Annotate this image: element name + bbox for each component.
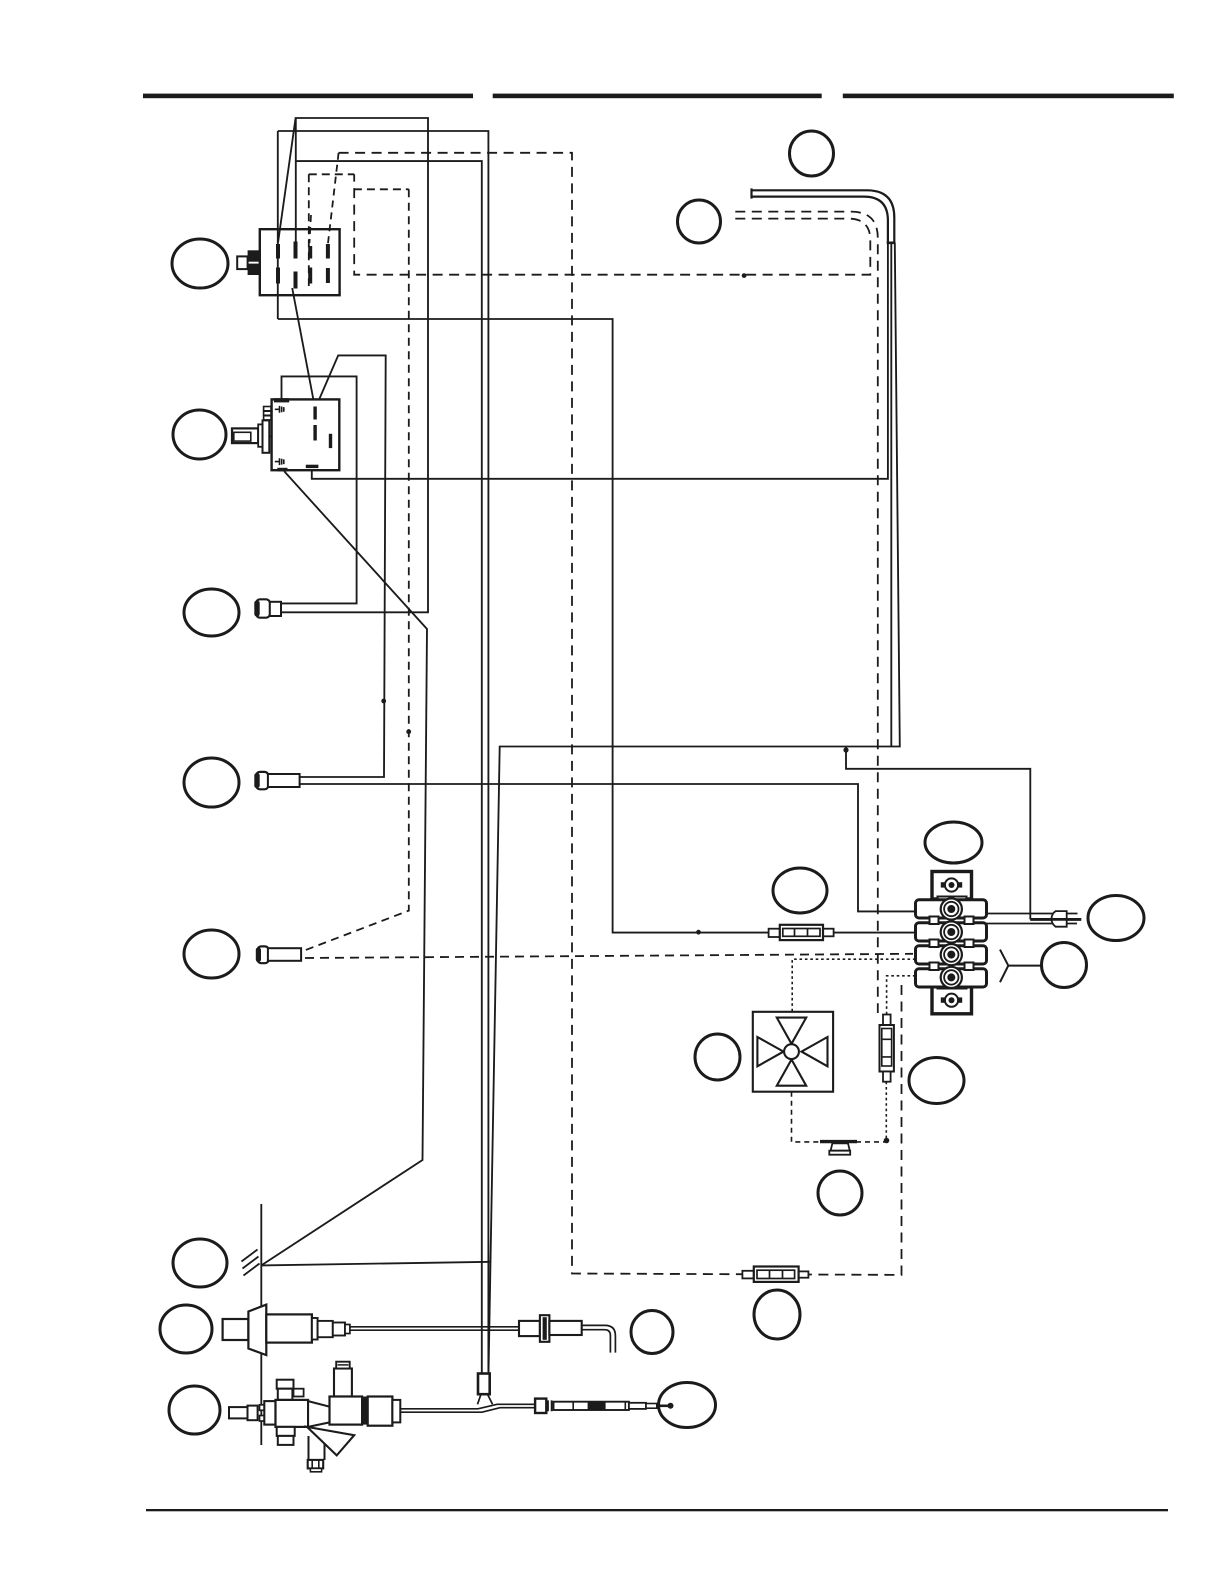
- screw terminal row1: [941, 898, 962, 919]
- dashed rect E top: [309, 173, 354, 175]
- wire spade feed thick: [1030, 918, 1081, 921]
- wire electrode2 lower to block row1: [300, 784, 916, 911]
- header rule left: [143, 94, 473, 99]
- callout thermocouple: [659, 1383, 716, 1428]
- callout electrode3: [184, 930, 239, 978]
- wire rectA left drop into module1: [295, 118, 297, 258]
- callout dashed loom: [678, 200, 721, 243]
- wire rectA module1 to electrode1 lower: [278, 118, 428, 612]
- knob of module 1: [237, 250, 260, 275]
- mounting screw top: [941, 878, 962, 891]
- inline fuse lower: [742, 1267, 808, 1282]
- callout electrode2: [184, 758, 239, 807]
- wire rectC top and left twin lead to junction: [296, 161, 482, 1373]
- callout module2: [173, 410, 226, 459]
- node on dashed riser: [406, 729, 411, 734]
- screw terminal row2: [941, 921, 962, 942]
- footer rule: [146, 1509, 1168, 1511]
- wire pipe pair inner: [890, 243, 892, 747]
- callout fuse2: [754, 1290, 800, 1339]
- dashed diagonal into module1 col4: [328, 153, 339, 244]
- electrode 1: [254, 599, 281, 617]
- wire module2 ground diagonal: [261, 471, 427, 1265]
- dashed loop module1 to pipe elbow: [354, 174, 870, 274]
- wire module1 to module2 diagonal: [292, 288, 315, 408]
- dashed rect E left into module1: [308, 174, 310, 286]
- gas hose outer line: [752, 190, 895, 243]
- wire block row1 right: [987, 913, 1078, 915]
- mounting screw bottom: [941, 994, 962, 1007]
- node at piezo wire end: [884, 1138, 890, 1144]
- ground: [242, 1250, 260, 1276]
- thermocouple probe: [535, 1399, 673, 1413]
- SECTION: wires: [261, 118, 1081, 1445]
- terminal block: [916, 872, 987, 1014]
- wire branch to spade terminal: [846, 747, 1030, 920]
- gas hose lower end cap: [887, 242, 896, 245]
- dotted wire block row3 to fan: [792, 959, 915, 1012]
- SECTION: gas pipe: [752, 188, 896, 242]
- wire module2 to electrode2 upper: [300, 355, 386, 777]
- wire rectB bottom to block row2 via fuse: [278, 319, 916, 933]
- wire rectB top and right twin lead to junction: [278, 131, 489, 1373]
- dotted wire battery holder to node: [885, 1082, 887, 1140]
- electrode 3: [256, 946, 301, 963]
- electrode 2: [254, 772, 299, 789]
- SECTION: callout balloons: [160, 131, 1144, 1434]
- fork terminal: [1000, 950, 1042, 983]
- spark module 2: [272, 398, 340, 471]
- junction block of twin lead: [478, 1374, 493, 1405]
- callout valve: [169, 1386, 220, 1434]
- gas hose left end cap: [750, 188, 752, 198]
- screw terminal row3: [941, 944, 962, 965]
- callout spade: [1088, 896, 1144, 941]
- spark module 1: [260, 215, 340, 295]
- SECTION: header rules: [143, 94, 1174, 1512]
- callout spark plug: [160, 1305, 212, 1353]
- callout cable elbow: [631, 1311, 673, 1354]
- callout fork: [1042, 943, 1087, 988]
- wire ground to junction lead: [261, 1262, 490, 1266]
- node on module2-electrode2 riser: [381, 699, 386, 704]
- spade terminal: [1030, 911, 1081, 927]
- dashed wire piezo to node: [856, 1141, 886, 1143]
- SECTION: junction dots: [381, 273, 889, 1143]
- SECTION: dotted wires: [792, 959, 916, 1142]
- gas valve assembly: [229, 1362, 400, 1472]
- callout piezo: [818, 1171, 862, 1215]
- callout ground: [173, 1239, 227, 1287]
- node on fuse wire: [696, 930, 701, 935]
- wire module2 bottom to gas pipe run: [312, 243, 888, 479]
- callout battery: [909, 1058, 964, 1104]
- wire rectB left through module1: [277, 131, 279, 319]
- spark plug cable assembly: [223, 1305, 616, 1356]
- callout module1: [172, 239, 228, 288]
- callout electrode1: [184, 589, 239, 636]
- callout fuse1: [773, 868, 827, 913]
- dashed run to battery holder: [735, 212, 878, 1013]
- SECTION: dashed wires: [302, 153, 913, 1275]
- wire pipe pair outer to junction via long slant: [489, 243, 900, 1373]
- callout fan: [695, 1034, 740, 1080]
- node on dashed crossover: [742, 273, 747, 278]
- callout block top: [925, 822, 982, 863]
- wire rectD module2 to electrode1 upper: [281, 376, 357, 603]
- battery fuse holder: [880, 1015, 894, 1082]
- dotted wire block row4 to battery holder: [887, 976, 916, 1016]
- dashed lead to electrode3 upper: [302, 189, 409, 951]
- wire block row2 right: [987, 923, 1078, 925]
- gas hose inner line: [752, 197, 888, 243]
- node on spade branch: [843, 747, 848, 752]
- fan motor: [753, 1012, 833, 1092]
- inline fuse upper: [769, 925, 834, 940]
- wire ground stem: [260, 1204, 262, 1445]
- callout gas hose: [790, 131, 834, 176]
- dashed electrode3 lower to block row3: [305, 954, 913, 958]
- dashed rect F top: [354, 188, 409, 190]
- thermocouple lead: [400, 1404, 535, 1412]
- header rule middle: [493, 94, 822, 99]
- dashed wire fan to piezo: [792, 1092, 822, 1142]
- screw terminal row4: [941, 967, 962, 988]
- piezo button: [820, 1142, 857, 1155]
- dashed outer rect top and right: [339, 153, 902, 1275]
- shaft of module 2: [232, 407, 272, 453]
- header rule right: [843, 94, 1174, 99]
